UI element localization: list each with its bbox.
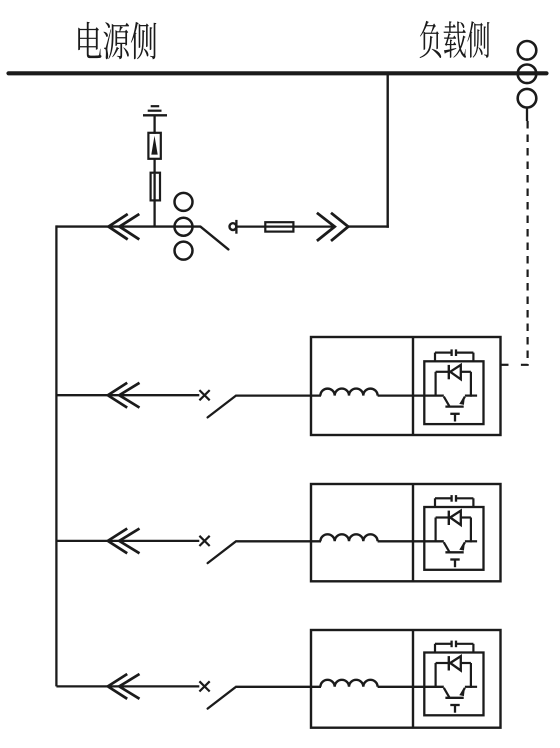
surge arrester F (box with arrow)	[148, 133, 160, 159]
busbar W (main bus)	[9, 71, 547, 75]
wire: incoming line (trunk corner to blade hinge)	[56, 225, 200, 227]
current transformer TA1 (3 windings)	[175, 193, 193, 260]
freewheeling diode VD3 (points left)	[436, 656, 471, 670]
reactor L3 (coil, 4 humps)	[320, 680, 377, 687]
wire: branch 1 from trunk to breaker	[56, 394, 199, 396]
IGBT module box branch 3	[424, 653, 483, 716]
wire: branch 3 from trunk to breaker	[56, 685, 199, 687]
IGBT module box branch 2	[424, 507, 483, 570]
wire: chevrons to riser	[348, 225, 389, 227]
switch blade (open) branch 1	[208, 396, 236, 417]
dashed control/measurement line	[515, 121, 528, 365]
wire: through fuse down to disconnector line	[153, 174, 155, 227]
wire: CT to dashed control line	[526, 108, 528, 122]
cabinet divider branch 3	[412, 630, 414, 728]
snubber capacitor branch 3	[435, 641, 473, 653]
withdrawable contact chevrons >> (outgoing)	[317, 213, 348, 241]
fuse FU1 (vertical)	[151, 173, 160, 201]
label: 电源侧 (power source side)	[78, 22, 156, 60]
snubber capacitor branch 1	[435, 349, 473, 361]
ground (earth symbol, inverted)	[143, 106, 167, 115]
stationary contact socket	[230, 220, 237, 234]
IGBT transistor V2	[444, 542, 465, 552]
wire: stub into converter box 1	[500, 364, 509, 366]
IGBT transistor V3	[444, 688, 465, 698]
switch blade (open) branch 2	[208, 542, 236, 563]
wire: blade to converter box branch 2	[235, 540, 321, 542]
switch blade (open) branch 3	[208, 687, 236, 708]
wire: ground to arrester	[153, 116, 155, 133]
snubber capacitor branch 2	[435, 495, 473, 507]
wire: coil to IGBT module branch 2	[378, 540, 444, 542]
fuse FU2 (horizontal)	[265, 222, 293, 231]
cabinet divider branch 1	[412, 337, 414, 435]
anti-parallel loop wires branch 2	[436, 518, 478, 543]
gate terminal T branch 2	[450, 560, 459, 568]
wire: branch 2 from trunk to breaker	[56, 540, 199, 542]
wire: left trunk (vertical feeder)	[55, 225, 57, 686]
wire: coil to IGBT module branch 3	[378, 686, 444, 688]
wire: arrester to fuse	[153, 159, 155, 174]
gate terminal T branch 1	[450, 414, 459, 422]
label: 负载侧 (load side)	[420, 21, 490, 58]
converter cabinet box branch 2	[311, 484, 501, 581]
reactor L1 (coil, 4 humps)	[320, 389, 377, 396]
withdrawable contact chevrons << branch 2	[108, 529, 140, 554]
converter cabinet box branch 1	[311, 337, 501, 435]
circuit breaker x-mark branch 3	[199, 681, 209, 691]
withdrawable contact chevrons << (incoming)	[109, 214, 140, 239]
freewheeling diode VD2 (points left)	[436, 511, 471, 525]
wire: blade to converter box branch 1	[235, 394, 321, 396]
IGBT transistor V1	[444, 397, 465, 407]
disconnector QS1 blade (open)	[200, 227, 228, 250]
anti-parallel loop wires branch 1	[436, 372, 478, 397]
withdrawable contact chevrons << branch 1	[108, 383, 140, 408]
wire: contact through fuse FU2 to chevrons	[238, 225, 336, 227]
IGBT module box branch 1	[424, 361, 483, 424]
wire: riser up to busbar	[387, 74, 389, 228]
circuit breaker x-mark branch 2	[199, 536, 209, 546]
wire: coil to IGBT module branch 1	[378, 394, 444, 396]
freewheeling diode VD1 (points left)	[436, 365, 471, 379]
wire: blade to converter box branch 3	[235, 686, 321, 688]
cabinet divider branch 2	[412, 484, 414, 581]
withdrawable contact chevrons << branch 3	[108, 674, 140, 699]
current transformer TA0 (load side, 3 windings)	[518, 41, 537, 107]
gate terminal T branch 3	[450, 705, 459, 713]
reactor L2 (coil, 4 humps)	[320, 534, 377, 541]
circuit breaker x-mark branch 1	[199, 390, 209, 400]
converter cabinet box branch 3	[311, 630, 501, 728]
anti-parallel loop wires branch 3	[436, 663, 478, 688]
